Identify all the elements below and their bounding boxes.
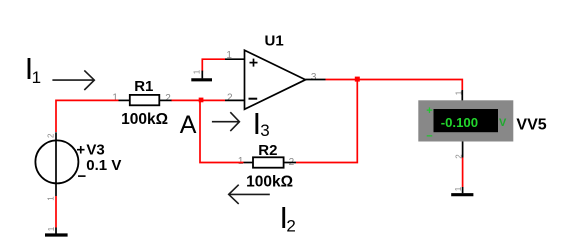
wire op-amp pin3 to output node to voltmeter [326,80,463,91]
svg-text:2: 2 [47,133,56,138]
arrow I2 [229,185,270,204]
svg-text:1: 1 [454,186,463,191]
svg-text:1: 1 [32,68,41,87]
wire node A down to R2 pin1 [200,100,244,162]
svg-text:R1: R1 [134,78,153,95]
svg-text:-0.100: -0.100 [441,115,478,130]
ground under V3 [45,228,68,236]
wire V3 bottom to ground [55,196,57,228]
voltmeter VV5 [418,90,513,158]
wire op-amp pin1 to ground [202,59,225,71]
svg-text:2: 2 [454,154,463,159]
svg-text:1: 1 [47,226,56,231]
svg-text:A: A [180,111,197,139]
wire R1 pin2 to node A [171,99,200,101]
svg-text:3: 3 [260,121,269,140]
current label I2 [280,201,296,236]
svg-text:2: 2 [286,217,295,236]
current label I1 [25,52,41,87]
svg-text:1: 1 [112,93,118,104]
svg-text:1: 1 [47,196,56,201]
svg-text:VV5: VV5 [516,116,546,133]
wire voltmeter bottom to ground [462,158,464,188]
svg-text:V: V [499,117,507,129]
wire V3 top to R1 pin1 [56,100,119,132]
svg-text:0.1 V: 0.1 V [86,157,121,174]
wire node A to op-amp pin2 [200,99,225,101]
arrow I3 [212,112,240,131]
svg-text:3: 3 [311,72,317,83]
resistor R2 [244,157,297,167]
svg-text:−: − [426,131,432,143]
svg-text:2: 2 [165,93,171,104]
voltage source V3 [35,132,78,196]
svg-text:1: 1 [454,90,463,95]
svg-text:2: 2 [227,92,233,103]
arrow I1 [52,70,94,90]
ground at op-amp pin1 [191,71,212,80]
svg-text:U1: U1 [265,32,284,49]
svg-text:100kΩ: 100kΩ [121,111,168,128]
wire R2 pin2 up to output node [296,80,357,163]
svg-text:+: + [426,105,432,117]
svg-text:1: 1 [192,69,201,74]
op-amp U1 [225,50,326,109]
svg-text:1: 1 [226,50,232,61]
junction output node [355,77,360,82]
svg-text:100kΩ: 100kΩ [246,173,293,190]
svg-text:+: + [76,142,85,159]
current label I3 [253,107,270,141]
svg-text:−: − [78,168,87,185]
ground under voltmeter [451,187,473,195]
resistor R1 [119,95,172,105]
svg-text:R2: R2 [258,142,277,159]
junction node A [199,98,204,103]
svg-text:1: 1 [238,156,244,167]
